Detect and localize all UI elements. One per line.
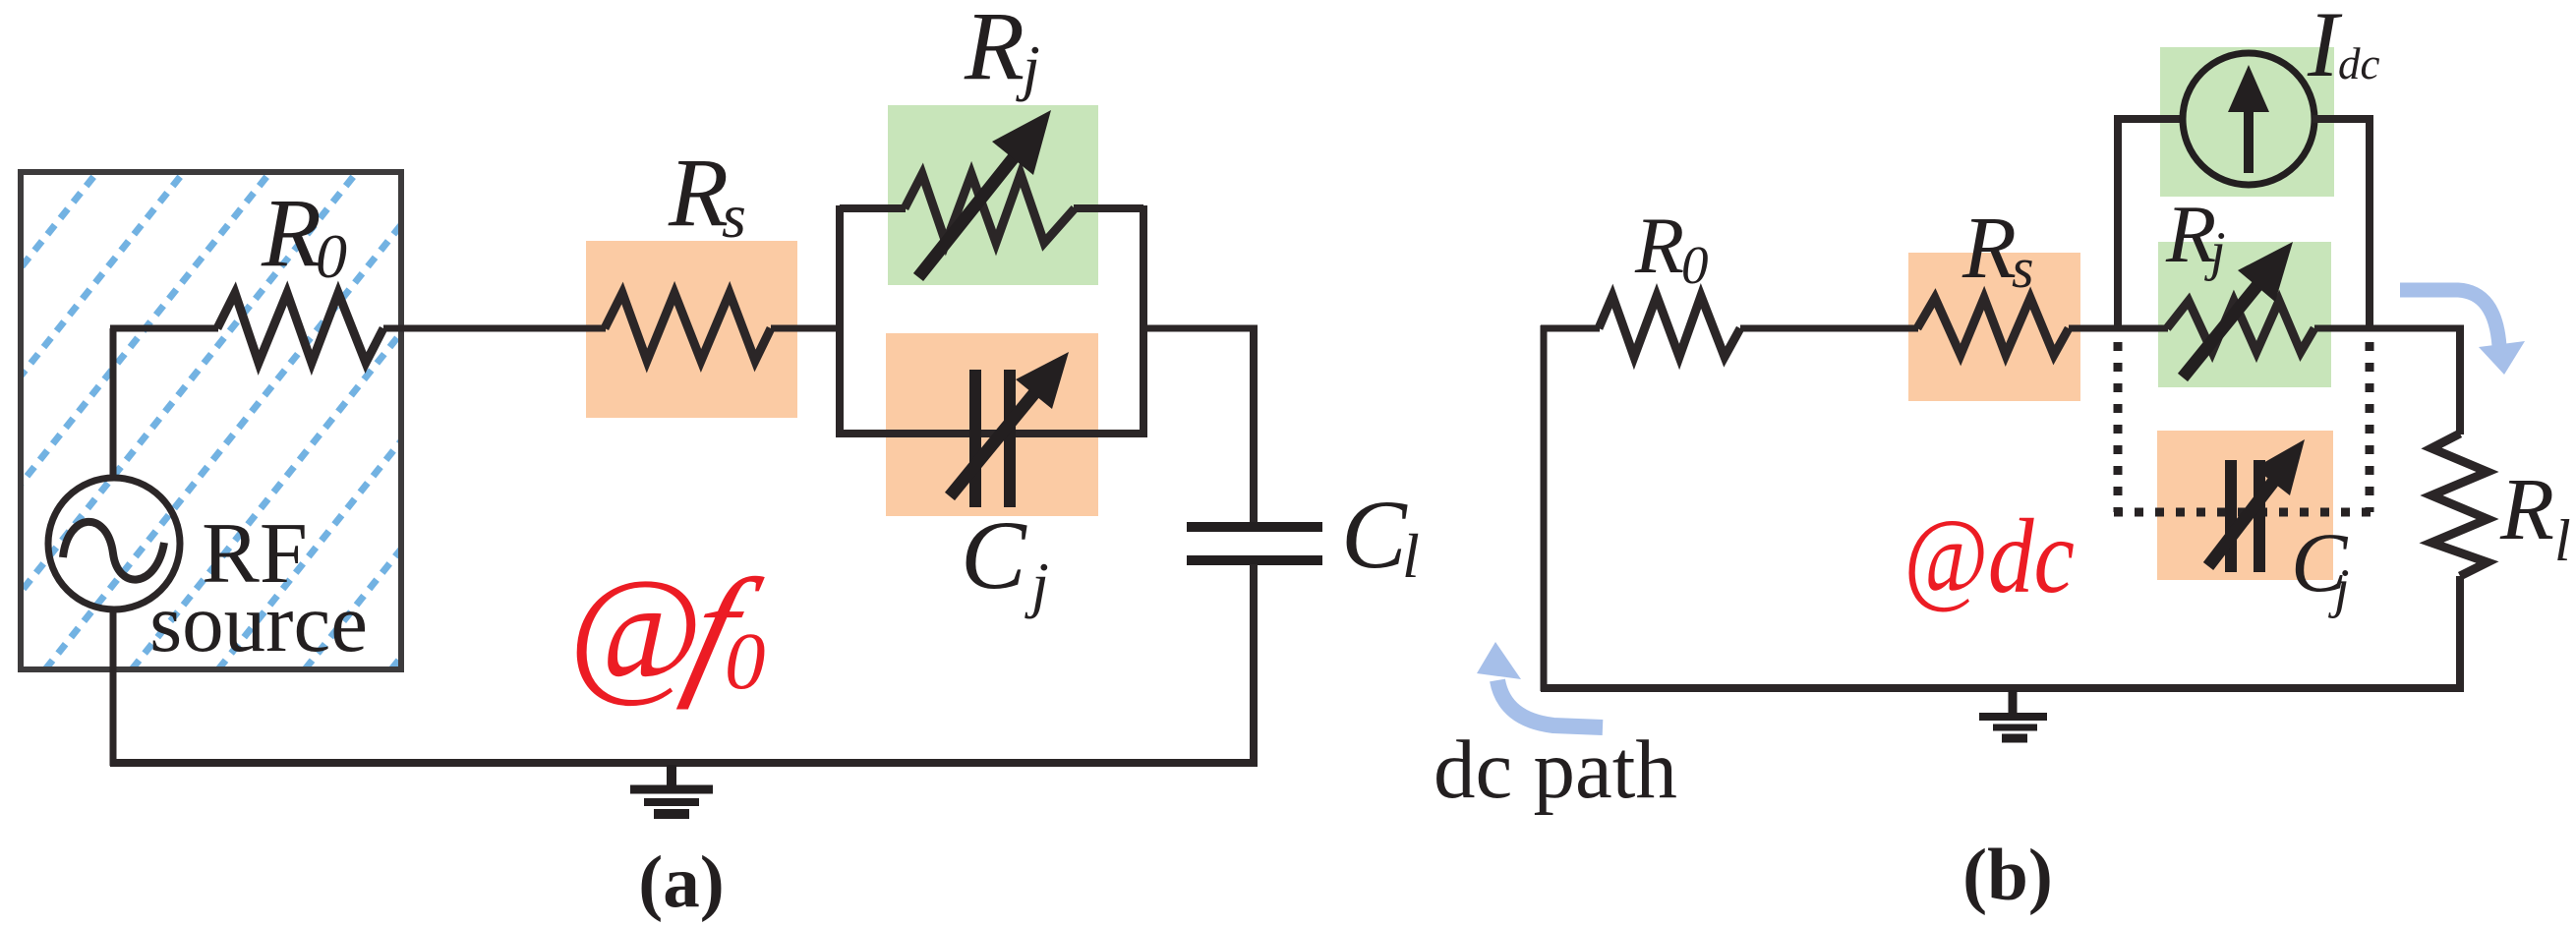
label Rj (b) (2165, 189, 2226, 282)
wire: parallel block right bar (a) (1140, 205, 1147, 437)
label R0 (a) (261, 178, 347, 291)
RF source box (0, 172, 790, 669)
label Rj (a) (964, 0, 1040, 102)
resistor Rs (b) (1917, 298, 2069, 355)
highlight box Cj (a) (886, 333, 1098, 516)
capacitor Cj (a) plates (975, 370, 1010, 507)
blue arrow: current into Rl (b) (2400, 290, 2525, 375)
ground (a) (630, 765, 713, 814)
svg-text:0: 0 (1681, 235, 1709, 295)
highlight box Cj (b) (2157, 431, 2333, 580)
wire: Cl bottom lead (a) (1250, 564, 1258, 766)
ground (b) (1979, 690, 2047, 738)
svg-text:(a): (a) (638, 841, 724, 923)
label Rs (a) (668, 138, 746, 251)
label Idc (b) (2307, 0, 2380, 96)
arrow of variable resistor Rj (b) (2183, 242, 2293, 377)
label Cj (b) (2291, 515, 2350, 619)
svg-text:l: l (2554, 508, 2571, 573)
svg-text:l: l (1402, 521, 1420, 591)
wire: parallel block left bar (a) (836, 205, 844, 437)
wire: output to Cl (a) (1143, 325, 1258, 332)
svg-text:0: 0 (316, 221, 347, 291)
resistor R0 (b) (1599, 296, 1740, 357)
current source Idc (b) (2183, 53, 2314, 185)
svg-text:0: 0 (725, 615, 766, 706)
wire: Idc branch left (b) (2118, 119, 2185, 328)
label RF source (149, 506, 368, 669)
arrow of variable capacitor Cj (b) (2208, 439, 2305, 566)
svg-text:R: R (1634, 201, 1684, 290)
wire: Rs to Rj (b) (2069, 325, 2168, 332)
svg-text:R: R (2499, 461, 2554, 558)
svg-text:s: s (2012, 236, 2034, 300)
wire: left lead of R0 (b) (1541, 325, 1600, 332)
svg-text:@dc: @dc (1903, 498, 2075, 615)
label R0 (b) (1634, 201, 1709, 295)
wire: Idc branch right (b) (2313, 119, 2370, 328)
svg-text:dc path: dc path (1434, 724, 1677, 816)
svg-text:source: source (149, 577, 368, 669)
blue arrow: dc path (b) (1477, 642, 1603, 727)
highlight box Rj (b) (2158, 242, 2331, 387)
wire: top branch left segment (a) (840, 204, 906, 212)
wire: right vertical bottom (b) (2456, 576, 2464, 691)
resistor Rj (b) (2167, 301, 2314, 352)
label @f0 (a) (568, 549, 773, 711)
label Cl (a) (1341, 480, 1420, 591)
wire: R0 to Rs (b) (1740, 325, 1918, 332)
wire: top branch right segment (a) (1074, 204, 1143, 212)
wire: source top lead (110, 328, 117, 479)
wire: bottom return (a) (110, 759, 1258, 767)
svg-text:R: R (964, 0, 1025, 100)
wire: source bottom lead (110, 608, 117, 766)
svg-text:R: R (668, 138, 729, 247)
svg-text:C: C (961, 500, 1027, 609)
resistor R0 (a) (217, 293, 383, 363)
arrow of variable resistor Rj (a) (918, 110, 1051, 277)
wire: R0 to Rs (a) (383, 325, 606, 332)
highlight box Rs (b) (1908, 253, 2080, 401)
wire: left vertical (b) (1541, 325, 1548, 691)
wire: bottom return (b) (1541, 684, 2464, 692)
svg-text:(b): (b) (1962, 835, 2053, 916)
AC source (RF) (48, 478, 180, 609)
svg-text:R: R (1961, 200, 2017, 297)
highlight box Rs (a) (586, 241, 797, 418)
svg-text:R: R (261, 178, 322, 287)
wire: Rj to right corner (b) (2314, 325, 2464, 332)
wire: left lead of R0 (a) (110, 325, 218, 332)
wire: Rs to parallel block (a) (771, 325, 844, 332)
capacitor Cl (a) (1187, 527, 1322, 560)
resistor Rj (a) (905, 174, 1075, 243)
label Cj (a) (961, 500, 1049, 619)
label Rs (b) (1961, 200, 2034, 300)
arrow of variable capacitor Cj (a) (950, 352, 1069, 496)
wire: Cl top lead (a) (1250, 328, 1258, 523)
svg-text:s: s (722, 181, 746, 251)
wire: bottom branch (a) (840, 430, 1143, 437)
highlight box Rj (a) (888, 105, 1098, 285)
svg-text:dc: dc (2338, 39, 2380, 88)
resistor Rs (a) (605, 293, 771, 361)
dashed box around Rj,Cj (b) (2114, 342, 2373, 512)
svg-text:R: R (2165, 189, 2216, 280)
svg-text:C: C (1341, 480, 1408, 589)
capacitor Cj (b) plates (2231, 460, 2259, 572)
resistor Rl (b) (2431, 434, 2488, 576)
label Rl (b) (2499, 461, 2571, 573)
wire: right vertical top (b) (2456, 325, 2464, 435)
highlight box Idc (b) (2160, 47, 2334, 197)
